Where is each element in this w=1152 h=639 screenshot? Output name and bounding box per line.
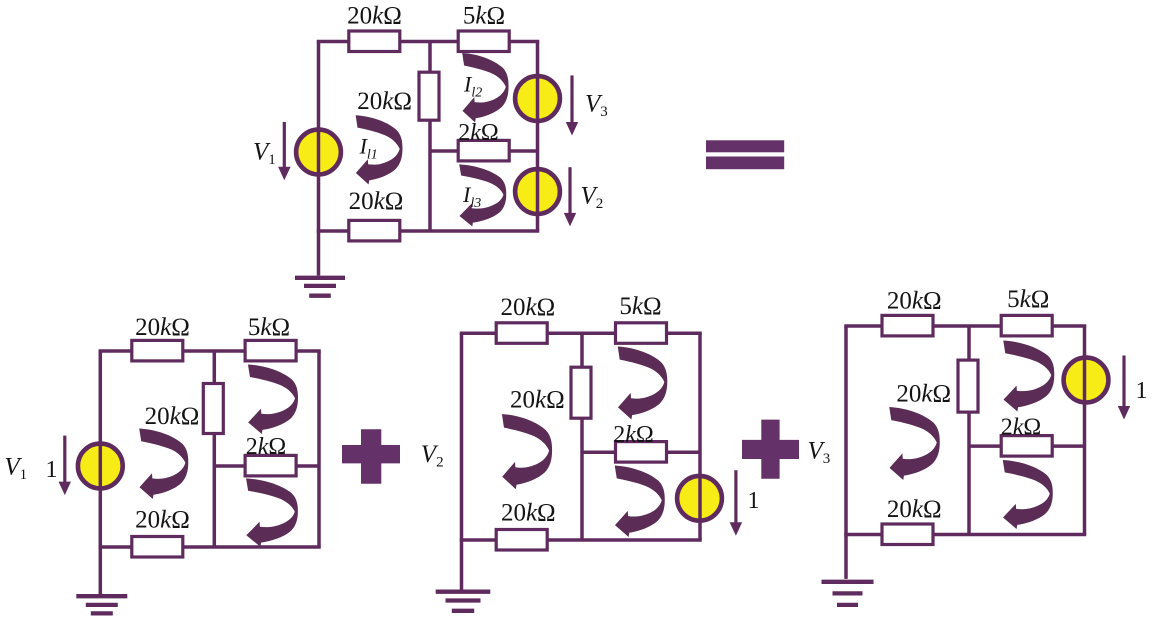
loop current arrow I_l1 — [356, 115, 403, 184]
svg-text:20kΩ: 20kΩ — [347, 2, 402, 29]
svg-text:20kΩ: 20kΩ — [501, 294, 556, 321]
svg-text:5kΩ: 5kΩ — [1007, 286, 1049, 313]
wire middle vertical (bottom-left) — [213, 351, 217, 547]
wire top (bottom-middle) — [460, 332, 702, 336]
wire top (bottom-right) — [844, 324, 1086, 328]
loop arrow bottom-right mesh (bottom-right) — [1003, 460, 1053, 529]
loop arrow top-right mesh (bottom-middle) — [618, 347, 668, 420]
svg-text:20kΩ: 20kΩ — [357, 88, 412, 115]
svg-text:2kΩ: 2kΩ — [246, 434, 287, 460]
loop arrow left mesh (bottom-middle) — [502, 414, 552, 489]
resistor 20k-ohm bottom (bottom-middle) — [496, 530, 547, 551]
wire right (bottom-left) — [317, 351, 321, 547]
svg-text:5kΩ: 5kΩ — [463, 2, 505, 29]
loop arrow bottom-right mesh (bottom-left) — [246, 478, 298, 546]
wire right (bottom-right) — [1083, 326, 1087, 535]
svg-text:20kΩ: 20kΩ — [887, 496, 942, 523]
current source V2 (top circuit) — [515, 169, 560, 214]
wire top (bottom-left) — [99, 349, 321, 353]
wire top (top) — [317, 40, 540, 44]
plus sign 1 — [342, 429, 400, 484]
svg-text:1: 1 — [1136, 378, 1148, 404]
resistor 20k-ohm top-left (bottom-middle) — [496, 323, 547, 344]
svg-text:5kΩ: 5kΩ — [619, 293, 661, 320]
resistor 20k-ohm bottom (top) — [349, 220, 400, 241]
svg-text:20kΩ: 20kΩ — [887, 288, 942, 315]
current source (bottom-left circuit) — [78, 444, 123, 489]
wire left (bottom-left) — [99, 351, 103, 547]
arrow source direction (bottom-left) — [59, 436, 72, 496]
svg-text:20kΩ: 20kΩ — [145, 403, 200, 430]
ground (bottom-middle circuit) — [436, 540, 491, 611]
equals sign bar 1 — [706, 140, 784, 152]
wire right (top) — [536, 42, 540, 232]
resistor 20k-ohm top-left (bottom-left) — [132, 340, 183, 361]
wire right (bottom-middle) — [698, 333, 702, 540]
current source (bottom-right circuit) — [1064, 358, 1109, 403]
loop arrow top-right mesh (bottom-right) — [1003, 341, 1054, 412]
resistor 20k-ohm bottom (bottom-left) — [132, 537, 183, 558]
arrow V3 direction (top) — [566, 75, 578, 135]
arrow V2 direction (top) — [564, 167, 576, 226]
wire middle horizontal (bottom-left) — [214, 464, 319, 468]
loop arrow left mesh (bottom-right) — [889, 407, 940, 480]
wire left (bottom-middle) — [460, 333, 464, 540]
resistor 20k-ohm top-left (bottom-right) — [882, 315, 933, 336]
wire middle vertical (bottom-middle) — [580, 333, 584, 540]
plus sign 2 — [742, 420, 799, 479]
current source V3 (top circuit) — [515, 76, 560, 121]
resistor 20k-ohm middle vertical (bottom-left) — [203, 384, 223, 434]
svg-text:20kΩ: 20kΩ — [135, 507, 190, 534]
wire bottom (bottom-left) — [99, 545, 321, 549]
wire bottom (top) — [317, 229, 540, 233]
resistor 20k-ohm middle vertical (bottom-right) — [958, 360, 978, 412]
arrow V1 direction (top) — [278, 122, 291, 180]
wire middle horizontal (top) — [430, 149, 538, 153]
wire left (top) — [317, 42, 321, 232]
wire middle horizontal (bottom-right) — [969, 444, 1085, 448]
ground (bottom-right circuit) — [822, 535, 874, 605]
svg-text:2kΩ: 2kΩ — [458, 120, 499, 146]
arrow source direction (bottom-middle) — [730, 470, 743, 536]
wire middle vertical (top) — [428, 42, 432, 232]
wire left (bottom-right) — [844, 326, 848, 535]
resistor 2k-ohm middle (top) — [458, 140, 509, 161]
svg-text:20kΩ: 20kΩ — [135, 314, 190, 341]
equals sign bar 2 — [706, 157, 784, 170]
svg-text:1: 1 — [46, 457, 58, 483]
wire bottom (bottom-middle) — [460, 538, 702, 542]
resistor 2k-ohm middle (bottom-left) — [245, 455, 296, 476]
resistor 5k-ohm top-right (bottom-right) — [1001, 315, 1052, 336]
ground (bottom-left circuit) — [76, 547, 127, 613]
current source V1 (top circuit) — [296, 130, 341, 175]
resistor 5k-ohm top-right (bottom-middle) — [616, 323, 667, 344]
loop current arrow I_l2 — [462, 53, 508, 122]
svg-text:20kΩ: 20kΩ — [349, 188, 404, 215]
resistor 20k-ohm middle vertical (top) — [419, 72, 439, 120]
svg-text:5kΩ: 5kΩ — [248, 314, 290, 341]
resistor 2k-ohm middle (bottom-middle) — [616, 442, 667, 463]
loop arrow top-right mesh (bottom-left) — [248, 365, 298, 434]
wire bottom (bottom-right) — [844, 533, 1086, 537]
svg-text:20kΩ: 20kΩ — [896, 381, 951, 408]
svg-text:20kΩ: 20kΩ — [510, 386, 565, 413]
loop arrow bottom-right mesh (bottom-middle) — [615, 466, 665, 538]
resistor 20k-ohm middle vertical (bottom-middle) — [571, 367, 591, 418]
svg-text:2kΩ: 2kΩ — [613, 422, 654, 448]
resistor 2k-ohm middle (bottom-right) — [1001, 436, 1052, 457]
resistor 20k-ohm top-left (top) — [349, 31, 400, 52]
arrow source direction (bottom-right) — [1118, 356, 1130, 420]
svg-text:1: 1 — [748, 488, 760, 514]
svg-text:20kΩ: 20kΩ — [501, 500, 556, 527]
resistor 20k-ohm bottom (bottom-right) — [882, 524, 933, 545]
current source (bottom-middle circuit) — [677, 476, 722, 521]
wire middle horizontal (bottom-middle) — [582, 450, 700, 454]
loop current arrow I_l3 — [459, 164, 506, 226]
svg-text:2kΩ: 2kΩ — [1001, 415, 1042, 441]
ground (top circuit) — [295, 231, 345, 296]
resistor 5k-ohm top-right (top) — [458, 31, 509, 52]
wire middle vertical (bottom-right) — [967, 326, 971, 535]
loop arrow left mesh (bottom-left) — [139, 429, 188, 500]
resistor 5k-ohm top-right (bottom-left) — [245, 340, 296, 361]
